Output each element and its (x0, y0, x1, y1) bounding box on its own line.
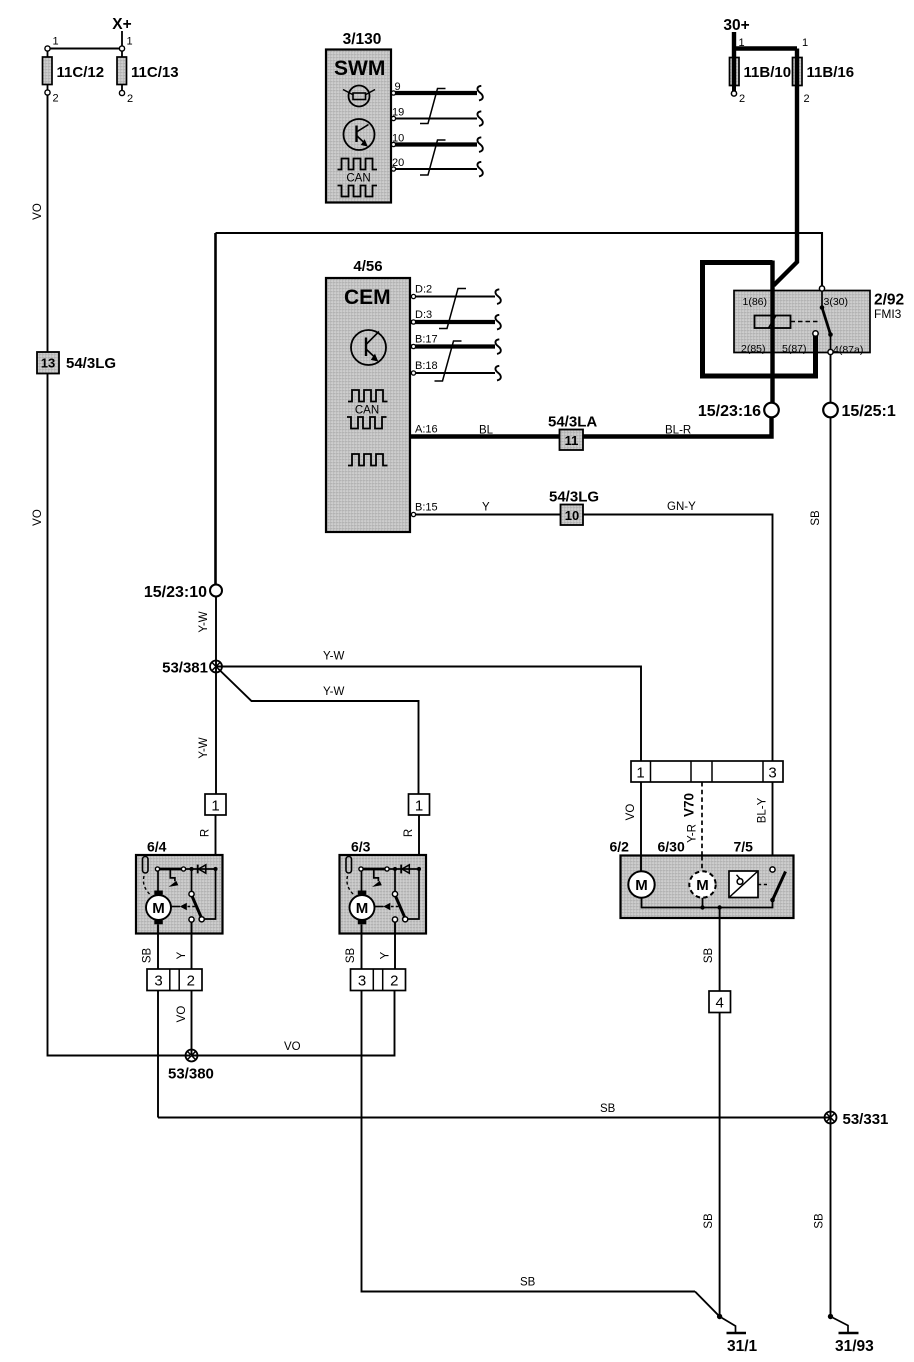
wire bus 15-feed from trunk to relay pin 3(30) (216, 233, 823, 286)
svg-text:SB: SB (703, 1213, 715, 1229)
svg-text:VO: VO (32, 509, 44, 526)
svg-text:GN-Y: GN-Y (667, 501, 696, 513)
svg-text:Y-W: Y-W (198, 737, 210, 758)
wire from X+ down to node (121, 31, 123, 49)
wire V70 Y-R dashed to motor 6/30 (682, 782, 703, 872)
washer motor 6/30 M dashed (689, 856, 715, 898)
svg-text:31/1: 31/1 (727, 1338, 758, 1355)
wire SB from 6/3 pin 3 down (362, 991, 696, 1292)
fuse 11B/16 (793, 58, 855, 106)
svg-text:VO: VO (625, 804, 637, 821)
square wave symbol in CEM (348, 454, 388, 466)
wire VO from splice to 6/3 pin 2 (192, 991, 395, 1056)
svg-text:54/3LG: 54/3LG (549, 489, 599, 506)
wire VO left trunk (32, 95, 190, 1056)
node X+ supply label (112, 16, 131, 33)
fuse 11B/10 (730, 58, 792, 106)
CEM pin A:16 label (415, 424, 438, 436)
svg-text:M: M (696, 877, 709, 894)
svg-text:1: 1 (127, 36, 133, 48)
svg-text:5(87): 5(87) (782, 343, 807, 355)
lamp symbol in SWM (343, 86, 375, 107)
CEM pin D:3 wire (411, 309, 501, 329)
wire loop feed to relay pin 5(87) (703, 263, 819, 377)
svg-text:30+: 30+ (723, 17, 749, 34)
svg-text:3: 3 (768, 765, 776, 782)
ground 31/1 (717, 1314, 758, 1355)
wire diagonal into ground 31/1 (695, 1292, 720, 1317)
module 4/56 CEM box (326, 278, 410, 532)
wire VO bar pin1 to washer motor 6/2 (625, 782, 641, 872)
relay pin 4(87a) (828, 335, 833, 403)
CEM pin B:15 label (411, 502, 437, 517)
svg-text:1: 1 (636, 765, 644, 782)
node pin 1 of 11C/12 (45, 36, 59, 52)
svg-text:A:16: A:16 (415, 424, 438, 436)
wire SB from 6/4 pin 3 to bottom bus (157, 991, 159, 1118)
svg-text:1: 1 (802, 37, 808, 49)
relay coil (755, 316, 791, 329)
svg-text:6/30: 6/30 (658, 839, 685, 855)
wire 30+ feed to fuses (734, 32, 808, 58)
wire SB from 15/25:1 down right side (810, 418, 831, 1317)
connector 4 (709, 991, 731, 1013)
svg-text:1(86): 1(86) (743, 296, 768, 308)
ground 31/93 (828, 1314, 874, 1355)
svg-text:6/3: 6/3 (351, 839, 371, 855)
module 3/130 SWM box (326, 50, 391, 203)
svg-text:SWM: SWM (334, 57, 385, 80)
svg-text:X+: X+ (112, 16, 131, 33)
svg-text:B:15: B:15 (415, 502, 438, 514)
wire Y-W from 15/23:10 to splice 53/381 (198, 597, 216, 667)
svg-text:6/4: 6/4 (147, 839, 167, 855)
splice 53/331 (825, 1111, 889, 1128)
svg-text:13: 13 (41, 356, 55, 371)
SWM pin 10 wire (391, 133, 483, 152)
svg-text:11B/10: 11B/10 (744, 64, 792, 81)
wire SB bottom bus to splice 53/331 (158, 1103, 831, 1118)
twisted pair mark B:17/B:18 (435, 341, 462, 381)
terminal 15/25:1 (823, 403, 896, 420)
svg-text:SB: SB (703, 948, 715, 964)
svg-text:53/380: 53/380 (168, 1066, 214, 1083)
svg-text:CEM: CEM (344, 286, 391, 309)
svg-text:53/331: 53/331 (843, 1111, 889, 1128)
CEM pin D:2 wire (411, 284, 501, 304)
svg-text:D:2: D:2 (415, 284, 432, 296)
svg-text:SB: SB (810, 510, 822, 526)
svg-text:7/5: 7/5 (734, 839, 754, 855)
CEM pin B:18 wire (411, 360, 501, 380)
svg-text:2: 2 (739, 93, 745, 105)
svg-text:Y-W: Y-W (198, 611, 210, 632)
svg-text:1: 1 (53, 36, 59, 48)
connector 13 54/3LG (37, 352, 116, 374)
wire through fuse 11B/16 body (795, 58, 799, 85)
washer motor 6/2 M (628, 856, 654, 898)
svg-text:Y-W: Y-W (323, 651, 344, 663)
svg-text:BL-Y: BL-Y (757, 797, 769, 823)
svg-text:4(87a): 4(87a) (833, 344, 863, 356)
SWM pin 20 wire (391, 157, 483, 176)
svg-text:FMI3: FMI3 (874, 307, 902, 321)
svg-text:2(85): 2(85) (741, 343, 766, 355)
svg-text:VO: VO (176, 1006, 188, 1023)
twisted pair mark pins 10/20 (420, 140, 446, 175)
relay switch arm (822, 308, 833, 337)
CAN symbol in CEM (347, 390, 388, 429)
splice 53/381 (162, 660, 222, 677)
washer module 6/2 6/30 7/5 box (610, 839, 794, 919)
wire Y-W from splice down to 6/4 (198, 667, 216, 795)
relay dashed actuation link (791, 321, 819, 323)
node 30+ supply label (723, 17, 749, 34)
svg-text:6/2: 6/2 (610, 839, 630, 855)
svg-text:VO: VO (284, 1041, 301, 1053)
module internal ground bus (642, 898, 773, 910)
twisted pair mark D:2/D:3 (439, 289, 466, 329)
svg-text:V70: V70 (682, 793, 697, 817)
svg-text:11: 11 (565, 433, 579, 448)
svg-text:10: 10 (565, 508, 579, 523)
level switch contact (770, 867, 786, 902)
svg-text:B:17: B:17 (415, 334, 438, 346)
terminal 15/23:10 (144, 584, 222, 601)
connector bar 1..3 above pump module (631, 761, 783, 782)
module 3/130 SWM label (343, 31, 382, 48)
svg-text:CAN: CAN (355, 405, 379, 417)
fuse 11C/12 (43, 51, 105, 105)
svg-text:11B/16: 11B/16 (807, 64, 855, 81)
CEM pin B:17 wire (411, 334, 501, 354)
wire BL / BL-R from CEM A:16 to 15/23:16 (411, 418, 772, 437)
transistor symbol in SWM (344, 119, 375, 150)
svg-text:VO: VO (32, 203, 44, 220)
svg-text:SB: SB (520, 1277, 536, 1289)
relay coil wire through to terminal 15/23:16 (770, 261, 774, 404)
dashed link sensor to switch (758, 884, 770, 886)
connector 11 54/3LA (548, 414, 597, 451)
fuse 11C/13 (117, 51, 179, 105)
svg-text:B:18: B:18 (415, 360, 438, 372)
svg-text:11C/12: 11C/12 (57, 64, 105, 81)
relay 2/92 box (734, 291, 904, 357)
svg-text:31/93: 31/93 (835, 1338, 874, 1355)
svg-text:15/23:16: 15/23:16 (698, 403, 761, 420)
wire between fuse tops (48, 48, 123, 50)
svg-text:3/130: 3/130 (343, 31, 382, 48)
wire trunk down to 15/23:10 (214, 233, 217, 585)
svg-text:54/3LA: 54/3LA (548, 414, 597, 431)
wire Y-W branch diagonal to 6/3 (219, 669, 419, 794)
svg-text:Y: Y (482, 502, 490, 514)
wire VO from 6/4 pin 2 to splice 53/380 (176, 991, 192, 1056)
svg-text:2: 2 (53, 93, 59, 105)
wire from fuse 11B/16 down to relay coil (774, 86, 798, 286)
svg-text:CAN: CAN (346, 173, 370, 185)
svg-text:Y-R: Y-R (687, 824, 699, 843)
module 4/56 CEM label (353, 258, 382, 275)
svg-text:BL-R: BL-R (665, 425, 691, 437)
svg-text:2: 2 (804, 93, 810, 105)
wiper motor module 6/4 (136, 794, 226, 991)
wire SB from module to connector 4 (703, 908, 720, 992)
svg-text:BL: BL (479, 425, 494, 437)
svg-text:53/381: 53/381 (162, 660, 208, 677)
wire Y / GN-Y from CEM B:15 to connector bar (411, 501, 773, 761)
svg-text:2/92: 2/92 (874, 292, 904, 309)
twisted pair mark pins 9/19 (420, 89, 446, 124)
svg-text:2: 2 (127, 93, 133, 105)
svg-text:4: 4 (716, 995, 724, 1012)
SWM pin 9 wire (391, 81, 483, 100)
svg-text:1: 1 (739, 37, 745, 49)
node pin 1 of 11C/13 (119, 36, 132, 52)
svg-text:4/56: 4/56 (353, 258, 382, 275)
svg-text:54/3LG: 54/3LG (66, 355, 116, 372)
svg-text:SB: SB (600, 1103, 616, 1115)
svg-text:Y-W: Y-W (323, 686, 344, 698)
svg-text:15/25:1: 15/25:1 (842, 403, 896, 420)
relay pin 3(30) (819, 286, 824, 310)
svg-text:3(30): 3(30) (824, 296, 849, 308)
wire through fuse 11B/10 body (732, 58, 736, 85)
svg-text:15/23:10: 15/23:10 (144, 584, 207, 601)
terminal 15/23:16 (698, 403, 779, 420)
svg-text:D:3: D:3 (415, 309, 432, 321)
svg-text:11C/13: 11C/13 (131, 64, 179, 81)
svg-text:SB: SB (814, 1213, 826, 1229)
SWM pin 19 wire (391, 107, 483, 126)
wire BL-Y bar pin3 to level switch (757, 782, 773, 867)
CAN symbol in SWM (338, 159, 378, 197)
wire Y-W branch right to connector bar pin 1 (216, 651, 641, 762)
wire SB from connector 4 to ground 31/1 (703, 1013, 720, 1317)
transistor symbol in CEM (351, 330, 386, 365)
fluid level sensor 7/5 (729, 871, 758, 898)
wiper motor module 6/3 (340, 794, 430, 991)
svg-text:M: M (635, 877, 648, 894)
connector 10 54/3LG (549, 489, 599, 526)
splice 53/380 (168, 1050, 214, 1083)
